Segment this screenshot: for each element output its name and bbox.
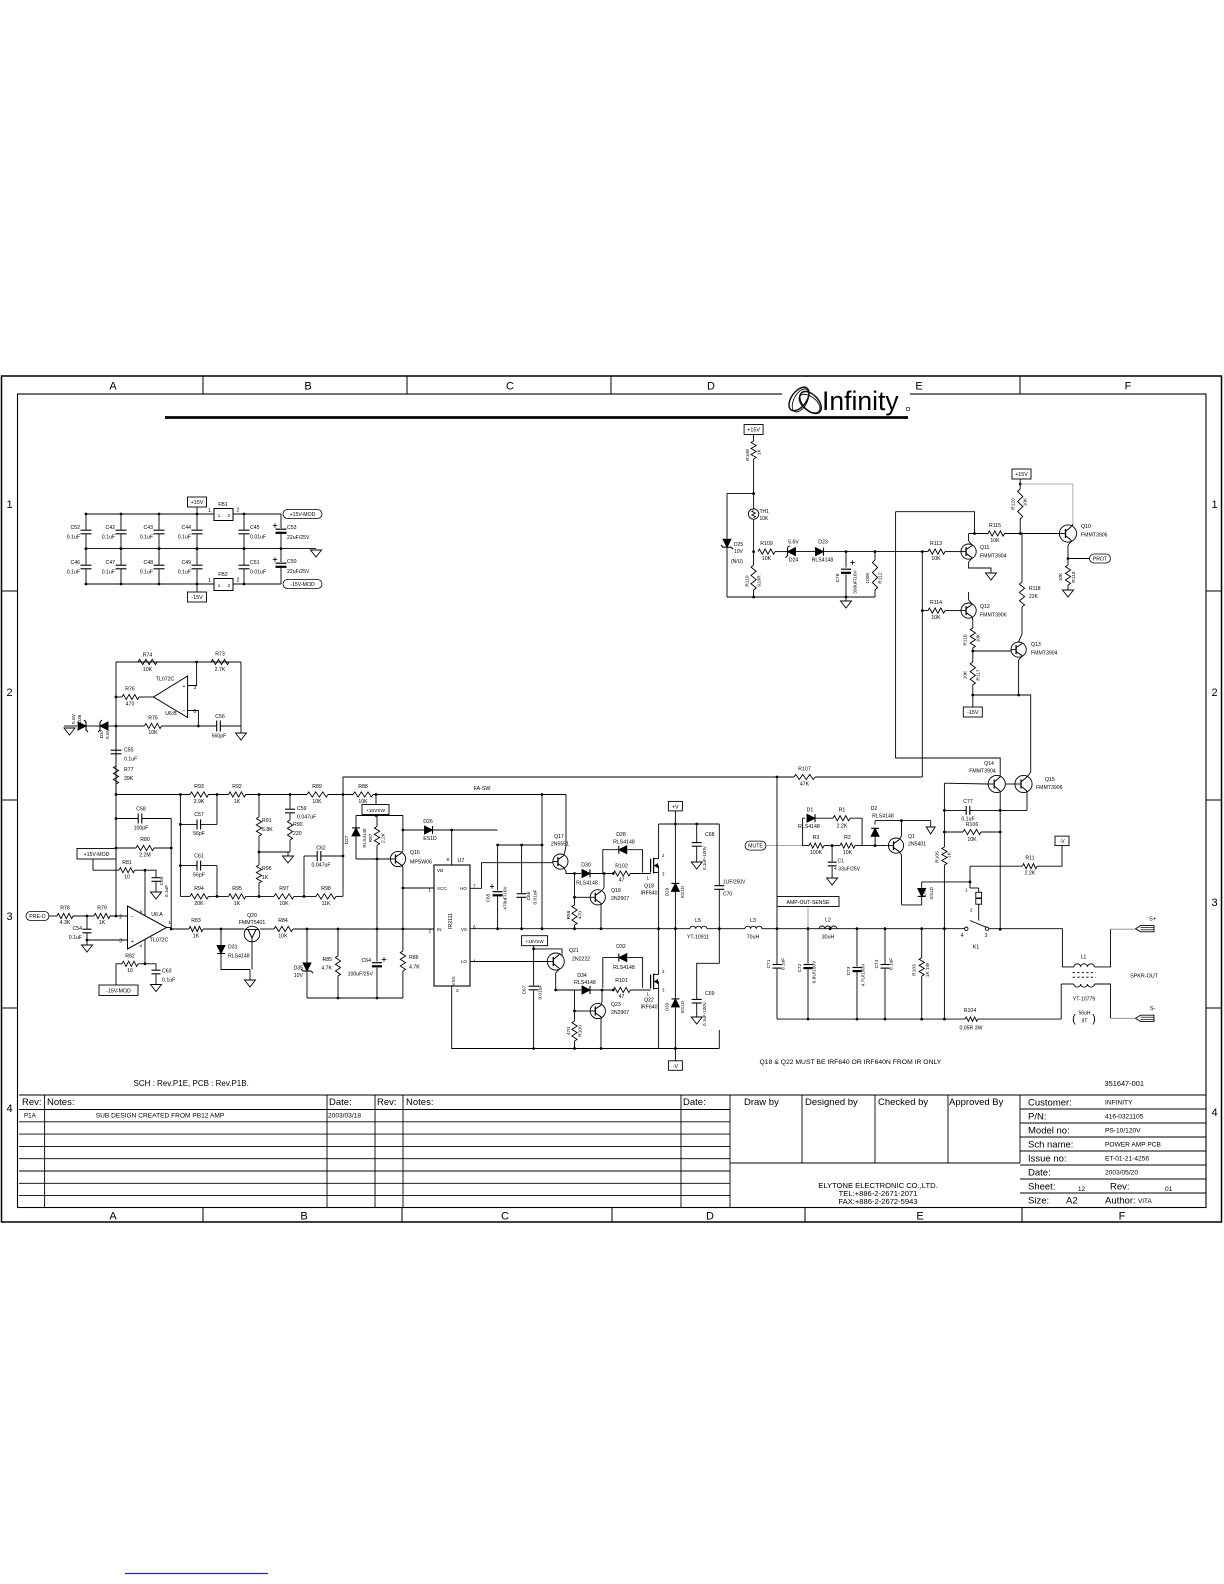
diode D5 <box>921 882 923 888</box>
ground <box>691 862 702 869</box>
wire top rail U6B <box>116 661 241 663</box>
svg-text:C: C <box>501 1211 509 1223</box>
svg-text:8: 8 <box>446 857 449 862</box>
svg-text:C60: C60 <box>159 876 165 885</box>
power flag -15V <box>188 592 207 602</box>
wire bottom bracket <box>659 1048 720 1050</box>
wire Q10 collector <box>1068 541 1072 545</box>
svg-text:R81: R81 <box>122 860 132 866</box>
svg-text:Q1: Q1 <box>908 834 915 840</box>
net flag PRE-O <box>26 912 49 921</box>
svg-text:0.1uF: 0.1uF <box>140 570 153 576</box>
svg-text:D30: D30 <box>581 863 591 869</box>
svg-text:D5: D5 <box>922 890 927 896</box>
svg-text:6.8K: 6.8K <box>262 827 273 833</box>
svg-text:D2: D2 <box>871 806 878 812</box>
svg-text:Issue no:: Issue no: <box>1028 1154 1067 1165</box>
inductor L3 <box>745 926 762 929</box>
svg-text:C45: C45 <box>250 525 260 531</box>
svg-text:01: 01 <box>1165 1186 1173 1193</box>
IC U7 IR2111 <box>434 865 470 986</box>
wire Q22 drain <box>658 929 660 975</box>
resistor R115 <box>969 533 988 535</box>
svg-text:C78: C78 <box>835 573 841 582</box>
capacitor C72 electrolytic <box>807 929 809 964</box>
column divider ticks top band <box>202 376 204 394</box>
resistor R87 <box>376 816 378 827</box>
svg-text:U6:A: U6:A <box>151 912 163 918</box>
wire to U7 IN <box>293 928 434 930</box>
svg-text:0.1uF: 0.1uF <box>178 570 191 576</box>
svg-text:D26: D26 <box>423 819 433 825</box>
svg-text:R116: R116 <box>963 634 969 645</box>
resistor R101 <box>612 989 615 992</box>
svg-text:R100: R100 <box>578 1025 584 1037</box>
svg-text:ET-01-21-4256: ET-01-21-4256 <box>1105 1156 1149 1163</box>
svg-text:C70: C70 <box>723 892 732 898</box>
svg-text:351647-001: 351647-001 <box>1105 1079 1144 1088</box>
wire +15VSW column <box>533 946 535 986</box>
svg-text:IR2111: IR2111 <box>448 913 454 929</box>
diode D29 <box>674 824 676 883</box>
svg-text:RLS4148: RLS4148 <box>872 813 894 819</box>
svg-text:70uH: 70uH <box>747 935 760 941</box>
svg-text:1: 1 <box>169 920 172 925</box>
wire L1 secondary <box>1061 983 1074 985</box>
row divider ticks left band <box>2 590 18 592</box>
wire right rail <box>240 662 242 726</box>
svg-text:SPKR-OUT: SPKR-OUT <box>1130 974 1159 980</box>
resistor R75 <box>145 723 162 728</box>
svg-text:1: 1 <box>1211 499 1217 511</box>
resistor R92 <box>229 792 246 797</box>
wire top rail <box>86 513 214 515</box>
wire loop top <box>727 494 754 539</box>
svg-text:S-: S- <box>1150 1006 1156 1012</box>
svg-text:Date:: Date: <box>683 1097 706 1108</box>
resistor R117 <box>970 662 975 685</box>
svg-text:10K: 10K <box>278 934 288 940</box>
diode D30 <box>575 873 582 875</box>
capacitor C48 <box>158 549 160 565</box>
svg-text:+15VSW: +15VSW <box>525 939 544 944</box>
wire Q12 collector stub <box>969 600 973 604</box>
svg-text:Model no:: Model no: <box>1028 1126 1070 1137</box>
resistor R95 <box>229 894 246 899</box>
svg-text:C65: C65 <box>486 893 492 902</box>
wire VCC <box>403 887 434 889</box>
diode D31 <box>220 928 223 931</box>
svg-text:4: 4 <box>139 944 142 949</box>
svg-text:R107: R107 <box>798 767 811 773</box>
resistor R82 <box>116 964 122 985</box>
svg-text:470uF/16V: 470uF/16V <box>503 885 509 909</box>
capacitor C65 electrolytic <box>497 845 499 891</box>
resistor R100 <box>574 990 576 1021</box>
svg-text:Author:: Author: <box>1105 1196 1136 1207</box>
svg-text:47: 47 <box>619 994 625 1000</box>
resistor R109 <box>758 549 775 554</box>
svg-text:-15V: -15V <box>967 710 979 716</box>
wire D5 top rail <box>922 881 970 883</box>
net flag +15VSW <box>362 805 389 815</box>
capacitor C73 electrolytic <box>856 929 858 967</box>
svg-text:A: A <box>109 381 117 393</box>
wire ladder left vertical <box>179 795 181 897</box>
svg-text:4.7K: 4.7K <box>409 965 420 971</box>
svg-text:R2: R2 <box>844 835 851 841</box>
svg-text:Q12: Q12 <box>980 604 990 610</box>
resistor R97 <box>274 894 294 899</box>
svg-text:R91: R91 <box>262 818 272 824</box>
svg-text:C46: C46 <box>70 560 80 566</box>
transistor Q19 <box>575 896 591 898</box>
wire +15VSW rail <box>375 815 377 816</box>
wire output row to relay <box>777 928 965 930</box>
resistor R2 <box>840 843 855 848</box>
wire D5 bottom rail <box>902 904 922 906</box>
svg-text:100uF/25V: 100uF/25V <box>348 972 374 978</box>
svg-text:F: F <box>1119 1211 1126 1223</box>
wire mid rail <box>86 548 281 550</box>
wire Q11 emitter <box>969 558 973 562</box>
svg-text:C58: C58 <box>136 807 146 813</box>
capacitor C51 <box>243 549 245 565</box>
svg-text:22uF/25V: 22uF/25V <box>287 535 310 541</box>
svg-text:Date:: Date: <box>329 1097 352 1108</box>
svg-text:C69: C69 <box>705 991 715 997</box>
svg-text:C63: C63 <box>162 969 172 975</box>
wire Q16 collector <box>402 851 403 852</box>
capacitor C74 <box>884 929 886 964</box>
svg-text:R103: R103 <box>912 964 918 976</box>
svg-text:0.01uF: 0.01uF <box>538 984 544 999</box>
svg-text:D29: D29 <box>665 887 670 896</box>
svg-text:1: 1 <box>218 583 221 588</box>
svg-text:R84: R84 <box>278 918 288 924</box>
svg-text:B: B <box>300 1211 307 1223</box>
svg-text:R117: R117 <box>976 669 982 680</box>
svg-text:47K: 47K <box>800 782 810 788</box>
wire VSS rail <box>452 986 661 1049</box>
svg-text:VITA: VITA <box>1138 1198 1152 1205</box>
svg-text:R86: R86 <box>409 955 419 961</box>
svg-text:0.047uF: 0.047uF <box>311 863 330 869</box>
wire R88 to +15VSW <box>375 795 377 805</box>
wire <box>86 725 100 727</box>
wire bottom rail <box>86 583 214 585</box>
resistor R77 <box>113 766 118 784</box>
wire ground rail 998 <box>307 997 403 999</box>
wire feedback bus <box>170 819 172 930</box>
zener D24 <box>775 551 787 553</box>
svg-text:100K: 100K <box>865 572 871 584</box>
svg-text:VS: VS <box>461 927 467 932</box>
wire Q21 emitter <box>556 969 560 973</box>
svg-text:P1A: P1A <box>24 1113 37 1120</box>
resistor R79 <box>94 913 110 918</box>
svg-text:2: 2 <box>119 915 122 921</box>
svg-text:R75: R75 <box>148 716 158 722</box>
svg-text:U6:B: U6:B <box>165 711 177 717</box>
svg-text:R109: R109 <box>760 541 773 547</box>
svg-text:IRF640: IRF640 <box>640 1005 657 1011</box>
svg-text:C42: C42 <box>105 525 115 531</box>
svg-text:FMMT3904: FMMT3904 <box>1031 651 1058 657</box>
resistor R86 <box>400 951 405 971</box>
svg-text:Rev:: Rev: <box>377 1097 397 1108</box>
wire Q15 emitter down <box>1026 791 1028 811</box>
svg-text:Q14: Q14 <box>984 761 994 767</box>
svg-text:D33: D33 <box>665 1002 670 1011</box>
svg-text:Q20: Q20 <box>247 913 257 919</box>
svg-text:R85: R85 <box>322 957 332 963</box>
svg-text:3: 3 <box>119 939 122 945</box>
svg-text:Customer:: Customer: <box>1028 1098 1072 1109</box>
svg-text:R1: R1 <box>839 808 846 814</box>
svg-text:Checked by: Checked by <box>878 1097 928 1108</box>
wire Q11 collector <box>969 541 973 545</box>
resistor R94 <box>190 894 209 899</box>
svg-text:3.9K: 3.9K <box>194 799 205 805</box>
resistor R119 <box>1065 565 1070 585</box>
svg-text:R118: R118 <box>1029 586 1041 592</box>
diode D1 <box>803 818 805 845</box>
wire opamp V- pin4 <box>144 940 146 964</box>
resistor R88 <box>353 792 373 797</box>
svg-text:1: 1 <box>965 888 968 893</box>
wire VS row <box>470 928 612 930</box>
wire R118 to Q13 <box>1021 607 1023 634</box>
svg-text:R3: R3 <box>813 835 820 841</box>
svg-text:0.1uF: 0.1uF <box>781 958 787 970</box>
svg-text:LO: LO <box>461 959 468 964</box>
svg-text:2N2907: 2N2907 <box>611 1010 629 1016</box>
wire Q17 collector drop <box>565 795 567 847</box>
svg-text:Q16: Q16 <box>410 850 420 856</box>
svg-text:7: 7 <box>473 884 476 889</box>
resistor R96 <box>256 865 261 883</box>
svg-text:PRE-O: PRE-O <box>29 914 45 920</box>
net flag +15V-MOD <box>283 510 322 519</box>
svg-text:D31: D31 <box>228 945 238 951</box>
net flag +15VSW <box>522 936 548 946</box>
svg-text:L3: L3 <box>750 918 756 924</box>
svg-text:(: ( <box>1072 1013 1076 1025</box>
svg-text:D37: D37 <box>99 729 105 738</box>
resistor R84 <box>260 928 274 930</box>
svg-text:0.1uF: 0.1uF <box>67 535 80 541</box>
transistor Q10 <box>1059 525 1076 542</box>
svg-text:R120: R120 <box>1011 498 1017 510</box>
ground <box>240 726 242 733</box>
capacitor C44 <box>196 514 198 530</box>
svg-text:2N2907: 2N2907 <box>611 896 629 902</box>
svg-text:FMMT3904: FMMT3904 <box>980 554 1007 560</box>
svg-text:-15V-MOD: -15V-MOD <box>290 582 315 588</box>
svg-text:2: 2 <box>1211 687 1217 699</box>
svg-text:C43: C43 <box>143 525 153 531</box>
zener D37 <box>100 722 108 730</box>
wire bus x895 to Q14 collector <box>896 512 1001 777</box>
svg-text:R102: R102 <box>615 864 628 870</box>
svg-text:1K: 1K <box>234 799 241 805</box>
svg-text:R73: R73 <box>215 652 225 658</box>
svg-text:-V: -V <box>1059 839 1065 845</box>
svg-text:2: 2 <box>237 578 240 584</box>
svg-text:2: 2 <box>228 513 231 518</box>
svg-text:R119: R119 <box>1071 571 1077 582</box>
svg-text:30uH: 30uH <box>822 935 835 941</box>
column divider ticks bottom band <box>202 1208 204 1223</box>
svg-text:Q15: Q15 <box>1045 777 1055 783</box>
svg-text:Size:: Size: <box>1028 1196 1049 1207</box>
svg-text:R105: R105 <box>935 851 941 863</box>
svg-text:47: 47 <box>619 878 625 884</box>
capacitor C67 <box>529 985 539 987</box>
svg-text:VB: VB <box>437 868 443 873</box>
svg-text:0.01uF: 0.01uF <box>533 889 539 904</box>
resistor R116 <box>970 628 975 648</box>
svg-text:R101: R101 <box>615 978 628 984</box>
svg-text:R114: R114 <box>930 600 942 606</box>
svg-text:Q23: Q23 <box>611 1002 621 1008</box>
svg-text:C48: C48 <box>143 560 153 566</box>
svg-text:+: + <box>183 684 186 690</box>
svg-text:1UF/250V: 1UF/250V <box>723 880 746 886</box>
net flag AMP-OUT-SENSE <box>777 897 839 907</box>
svg-text:C52: C52 <box>70 525 80 531</box>
capacitor C45 <box>243 514 245 530</box>
svg-text:0.1uF: 0.1uF <box>102 535 115 541</box>
svg-text:0.1uF: 0.1uF <box>164 885 170 897</box>
svg-text:RLS4148: RLS4148 <box>574 980 596 986</box>
diode D28 <box>603 850 618 874</box>
svg-text:10V: 10V <box>734 549 744 555</box>
svg-text:RLS4148: RLS4148 <box>228 954 250 960</box>
svg-text:PROT: PROT <box>1093 557 1108 563</box>
svg-text:R80: R80 <box>140 837 150 843</box>
wire Q12 emitter <box>971 617 974 620</box>
svg-text:D25: D25 <box>734 542 743 548</box>
svg-text:(N/U): (N/U) <box>731 559 743 565</box>
svg-text:4: 4 <box>6 1103 12 1115</box>
svg-text:0.05R 3W: 0.05R 3W <box>959 1026 982 1032</box>
resistor R89 <box>307 792 328 797</box>
wire pin3 row <box>87 939 128 941</box>
svg-text:100K: 100K <box>810 850 823 856</box>
svg-text:Date:: Date: <box>1028 1168 1051 1179</box>
wire R107 row <box>343 777 794 795</box>
svg-text:C71: C71 <box>766 959 772 968</box>
wire Q1 collector <box>900 836 902 839</box>
svg-text:10K: 10K <box>1058 572 1064 581</box>
svg-text:C68: C68 <box>705 832 715 838</box>
svg-text:4: 4 <box>1211 1107 1217 1119</box>
svg-text:VSS: VSS <box>451 976 456 985</box>
svg-text:416-0321105: 416-0321105 <box>1105 1114 1144 1121</box>
svg-text:3: 3 <box>1211 897 1217 909</box>
resistor R85 <box>337 929 339 956</box>
svg-text:R78: R78 <box>60 906 70 912</box>
wire bus x922 <box>921 552 923 777</box>
zener D35 <box>306 929 308 963</box>
svg-text:R110: R110 <box>745 575 751 586</box>
wire Q22 source <box>658 989 660 1049</box>
svg-text:+15V-MOD: +15V-MOD <box>290 512 316 518</box>
capacitor C77 <box>944 809 966 811</box>
resistor R81 <box>119 868 135 873</box>
svg-text:Sch name:: Sch name: <box>1028 1140 1073 1151</box>
svg-text:+15V-MOD: +15V-MOD <box>84 852 110 858</box>
resistor R73 <box>211 659 229 664</box>
resistor R110 <box>753 552 755 565</box>
svg-text:470: 470 <box>578 911 584 919</box>
wire pair bottom <box>356 858 390 860</box>
svg-text:POWER AMP PCB: POWER AMP PCB <box>1105 1142 1162 1149</box>
wire rail 794 <box>116 794 190 796</box>
wire gray feed to Q10 emitter <box>1020 484 1073 524</box>
svg-text:R82: R82 <box>125 954 135 960</box>
transistor Q1 <box>888 838 903 853</box>
svg-text:2.2M: 2.2M <box>139 853 151 859</box>
svg-text:P/N:: P/N: <box>1028 1112 1046 1123</box>
transistor Q18 IRF640 <box>650 859 652 873</box>
diode D33 <box>674 929 676 999</box>
svg-text:39K: 39K <box>124 776 134 782</box>
svg-text:10K: 10K <box>843 850 853 856</box>
svg-text:L5: L5 <box>695 918 701 924</box>
svg-text:TH1: TH1 <box>760 509 770 515</box>
resistor R11 <box>970 865 1022 867</box>
wire Q15 collector up <box>1027 772 1031 777</box>
svg-text:R90: R90 <box>293 822 303 828</box>
svg-text:10K: 10K <box>762 556 772 562</box>
svg-text:2: 2 <box>228 583 231 588</box>
capacitor C50 electrolytic <box>280 549 282 562</box>
svg-text:S+: S+ <box>1149 917 1156 923</box>
svg-text:C57: C57 <box>194 812 204 818</box>
svg-text:2: 2 <box>6 687 12 699</box>
border frame outer <box>2 376 1222 1222</box>
svg-text:10K: 10K <box>990 538 1000 544</box>
svg-text:2003/03/18: 2003/03/18 <box>328 1113 361 1120</box>
svg-text:RLS4148: RLS4148 <box>613 840 635 846</box>
capacitor C61 <box>180 865 196 867</box>
svg-text:C67: C67 <box>522 985 528 994</box>
svg-text:R115: R115 <box>989 523 1001 529</box>
svg-text:4: 4 <box>961 933 964 939</box>
ground <box>249 970 251 981</box>
wire LO to Q21 base <box>470 961 547 963</box>
svg-text:K1: K1 <box>973 945 980 951</box>
svg-text:4.7U/100V: 4.7U/100V <box>861 963 867 986</box>
svg-text:RLS4148: RLS4148 <box>576 881 598 887</box>
svg-text:C50: C50 <box>287 559 297 565</box>
wire +15V-MOD to R81 <box>93 859 119 870</box>
wire mute row <box>803 845 809 847</box>
svg-text:C77: C77 <box>963 799 973 805</box>
svg-text:9T: 9T <box>1082 1019 1088 1025</box>
svg-text:+15V: +15V <box>191 500 204 506</box>
svg-text:1K: 1K <box>262 875 269 881</box>
svg-text:+15V: +15V <box>747 428 760 434</box>
ground <box>151 892 162 899</box>
svg-text:10K: 10K <box>760 516 770 522</box>
ground <box>845 597 847 601</box>
wire Q18 drain <box>658 824 660 859</box>
svg-text:R99: R99 <box>566 910 572 919</box>
